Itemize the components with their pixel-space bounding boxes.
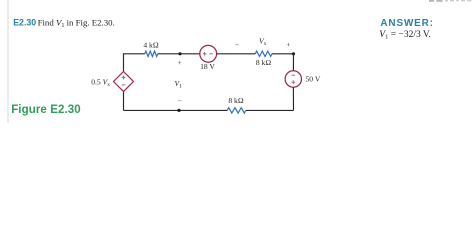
wire: bottom left segment	[124, 109, 228, 111]
voltage source 18 V	[200, 45, 217, 62]
svg-text:ANSWER:: ANSWER:	[380, 18, 433, 29]
resistor 8 kOhm (top right)	[255, 51, 272, 56]
svg-text:−: −	[178, 97, 182, 106]
resistor 8 kOhm (bottom)	[227, 108, 246, 113]
wire: top middle segment	[158, 53, 200, 55]
svg-text:V1 = −32/3 V.: V1 = −32/3 V.	[379, 30, 431, 41]
node dot (bottom, V1 -)	[177, 109, 180, 112]
svg-text:4 kΩ: 4 kΩ	[143, 40, 158, 49]
svg-text:−: −	[235, 40, 239, 49]
svg-text:E2.30: E2.30	[13, 17, 36, 27]
svg-text:18 V: 18 V	[200, 62, 215, 71]
node dot (top, V1 +)	[178, 52, 181, 55]
svg-text:Find V1 in Fig. E2.30.: Find V1 in Fig. E2.30.	[38, 17, 115, 29]
faint cropped text remnant at top edge	[429, 0, 472, 2]
svg-text:8 kΩ: 8 kΩ	[256, 58, 271, 67]
voltage source 50 V	[285, 71, 301, 87]
svg-text:Vx: Vx	[259, 37, 267, 48]
svg-text:0.5 Vx: 0.5 Vx	[91, 78, 110, 89]
svg-text:Figure E2.30: Figure E2.30	[11, 104, 81, 116]
wire: left side lower	[123, 92, 125, 111]
wire: bottom right segment	[246, 109, 294, 111]
wire: to top-right corner	[272, 53, 294, 55]
node dot (top right corner)	[292, 52, 295, 55]
svg-text:V1: V1	[175, 79, 183, 90]
svg-text:50 V: 50 V	[306, 75, 321, 84]
svg-text:+: +	[178, 58, 182, 67]
svg-text:8 kΩ: 8 kΩ	[228, 96, 243, 105]
wire: right side upper	[292, 54, 294, 71]
dependent source 0.5 Vx (diamond)	[114, 72, 134, 92]
svg-text:+: +	[286, 40, 290, 49]
wire: top right segment	[217, 53, 256, 55]
wire: right side lower	[292, 87, 294, 110]
resistor 4 kOhm (top left)	[145, 51, 158, 56]
left margin rule	[7, 0, 9, 123]
wire: top-left segment	[124, 54, 145, 72]
